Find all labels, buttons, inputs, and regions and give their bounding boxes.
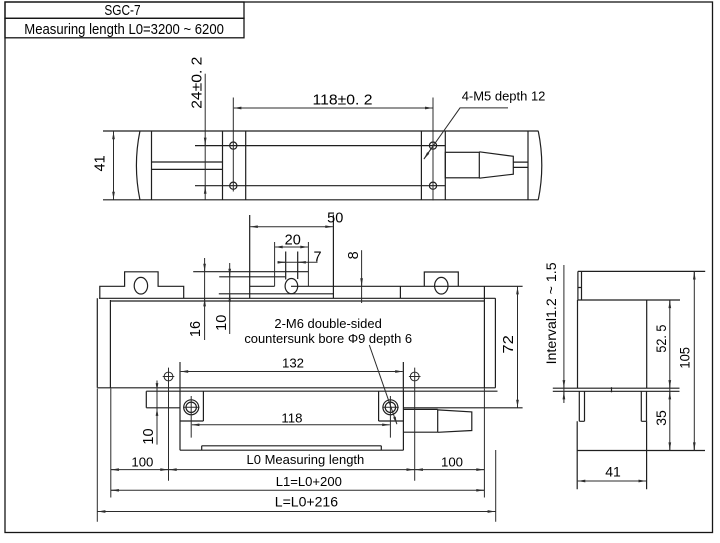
svg-text:8: 8 bbox=[346, 251, 362, 259]
svg-text:50: 50 bbox=[327, 211, 343, 227]
svg-text:118: 118 bbox=[281, 411, 302, 426]
svg-text:100: 100 bbox=[131, 455, 153, 470]
svg-text:72: 72 bbox=[501, 335, 517, 354]
svg-text:35: 35 bbox=[653, 410, 669, 426]
svg-text:41: 41 bbox=[605, 463, 621, 479]
svg-text:10: 10 bbox=[141, 428, 157, 444]
svg-text:7: 7 bbox=[313, 249, 321, 265]
svg-text:52. 5: 52. 5 bbox=[653, 324, 669, 352]
svg-text:24±0. 2: 24±0. 2 bbox=[189, 57, 206, 109]
svg-text:2-M6 double-sided: 2-M6 double-sided bbox=[274, 316, 381, 331]
svg-text:105: 105 bbox=[677, 347, 693, 369]
svg-text:Measuring length L0=3200 ~ 620: Measuring length L0=3200 ~ 6200 bbox=[24, 21, 224, 38]
svg-text:SGC-7: SGC-7 bbox=[104, 3, 140, 19]
svg-text:16: 16 bbox=[188, 321, 204, 337]
svg-text:132: 132 bbox=[282, 356, 304, 371]
svg-text:L=L0+216: L=L0+216 bbox=[275, 495, 339, 510]
svg-text:41: 41 bbox=[93, 155, 109, 171]
svg-text:Interval1.2 ~ 1.5: Interval1.2 ~ 1.5 bbox=[544, 262, 559, 364]
svg-text:118±0. 2: 118±0. 2 bbox=[313, 91, 373, 108]
svg-text:L0 Measuring length: L0 Measuring length bbox=[247, 452, 365, 467]
svg-text:countersunk bore Φ9 depth 6: countersunk bore Φ9 depth 6 bbox=[244, 331, 412, 346]
svg-text:100: 100 bbox=[441, 455, 463, 470]
svg-text:L1=L0+200: L1=L0+200 bbox=[276, 474, 342, 489]
svg-text:10: 10 bbox=[214, 315, 230, 331]
svg-text:20: 20 bbox=[285, 232, 301, 248]
svg-text:4-M5 depth 12: 4-M5 depth 12 bbox=[462, 89, 546, 104]
